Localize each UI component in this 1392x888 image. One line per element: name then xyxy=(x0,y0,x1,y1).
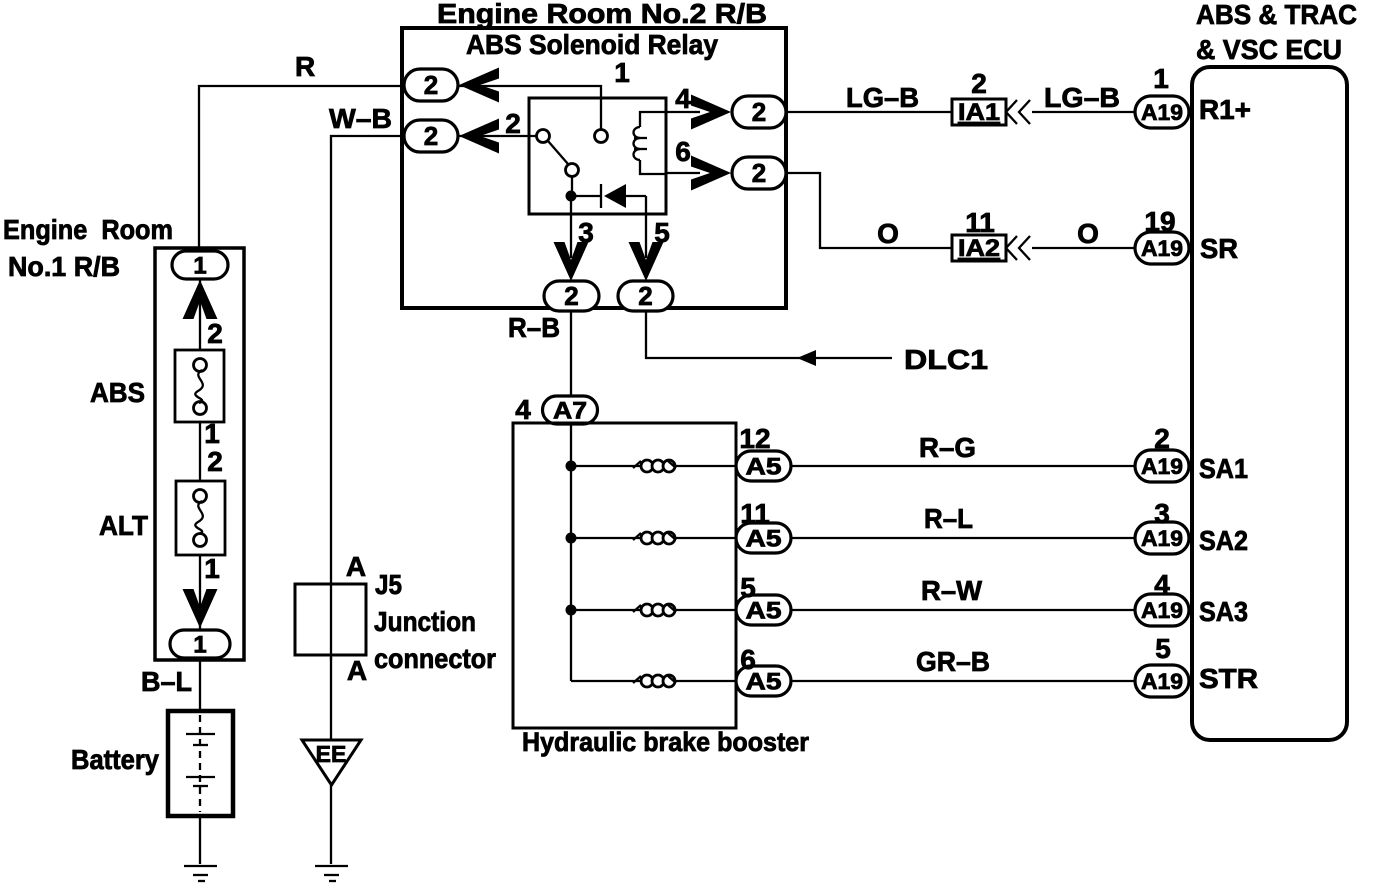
wire battery to ground xyxy=(199,816,201,864)
svg-text:1: 1 xyxy=(204,418,220,449)
wire W-B: relay pin2 to J5 junction connector xyxy=(331,136,404,740)
svg-text:2: 2 xyxy=(505,108,521,139)
svg-text:A19: A19 xyxy=(1141,100,1183,125)
svg-text:A: A xyxy=(346,551,366,582)
double chevron IA2 xyxy=(1006,236,1030,260)
connector A19 row 4 xyxy=(1135,665,1189,697)
svg-text:A19: A19 xyxy=(1141,454,1183,479)
svg-text:6: 6 xyxy=(675,136,691,167)
wire LG-B relay pin4 to IA1 xyxy=(786,111,952,113)
svg-text:A5: A5 xyxy=(746,454,782,481)
wire solenoid row 3 xyxy=(571,609,736,611)
connector oval top (1) xyxy=(172,251,228,279)
solenoid coil row 2 xyxy=(633,533,641,540)
wire O IA2 to A19 xyxy=(1032,247,1136,249)
solenoid coil row 3 xyxy=(633,605,641,612)
arrow toward DLC1 xyxy=(797,350,816,366)
junction connector J5 xyxy=(295,584,366,655)
svg-text:SA3: SA3 xyxy=(1199,596,1248,627)
svg-text:4: 4 xyxy=(1154,569,1170,600)
svg-text:A19: A19 xyxy=(1141,236,1183,261)
junction connector IA1 xyxy=(952,99,1006,125)
svg-text:ABS: ABS xyxy=(90,377,145,408)
connector A7 pin4 xyxy=(543,396,598,424)
svg-text:19: 19 xyxy=(1144,206,1175,237)
ground EE xyxy=(315,865,348,867)
svg-text:2: 2 xyxy=(564,281,578,311)
svg-text:GR–B: GR–B xyxy=(916,646,990,677)
wire O relay pin6 to IA2 xyxy=(786,173,952,248)
wire R-B bus xyxy=(570,311,572,681)
svg-text:2: 2 xyxy=(971,68,987,99)
ground triangle EE xyxy=(302,740,361,785)
svg-text:1: 1 xyxy=(193,253,206,280)
svg-text:2: 2 xyxy=(207,446,223,477)
fuse ABS xyxy=(175,350,224,422)
svg-text:A19: A19 xyxy=(1141,526,1183,551)
svg-text:2: 2 xyxy=(638,281,652,311)
wire solenoid row 4 xyxy=(571,680,736,682)
fuse ALT xyxy=(176,481,225,555)
arrow into relay pin2 xyxy=(459,119,499,154)
battery box xyxy=(168,711,233,816)
wire relay pin3 xyxy=(570,196,572,258)
wire EE to ground xyxy=(330,785,332,864)
connector A19 row 1 xyxy=(1135,450,1189,482)
relay block box Engine Room No.2 R/B xyxy=(402,28,786,308)
svg-text:5: 5 xyxy=(654,217,670,248)
svg-text:3: 3 xyxy=(578,217,594,248)
wire relay pin2 internal xyxy=(458,135,537,137)
svg-text:ABS & TRAC: ABS & TRAC xyxy=(1196,0,1357,30)
relay inner box xyxy=(529,98,666,214)
svg-text:SA1: SA1 xyxy=(1199,453,1248,484)
svg-text:O: O xyxy=(1077,218,1099,249)
connector A19 row 2 xyxy=(1135,522,1189,554)
svg-text:J5: J5 xyxy=(375,569,402,600)
svg-text:5: 5 xyxy=(740,572,756,603)
svg-text:Junction: Junction xyxy=(374,606,476,637)
svg-text:2: 2 xyxy=(424,70,438,100)
svg-text:Hydraulic brake booster: Hydraulic brake booster xyxy=(522,727,809,757)
svg-text:1: 1 xyxy=(1153,63,1169,94)
svg-text:2: 2 xyxy=(752,97,766,127)
arrow into relay pin1 xyxy=(459,68,499,103)
svg-text:1: 1 xyxy=(204,553,220,584)
svg-text:R–W: R–W xyxy=(921,575,983,606)
svg-text:DLC1: DLC1 xyxy=(904,344,988,375)
svg-text:A: A xyxy=(347,655,367,686)
wire J5 to EE xyxy=(330,657,332,660)
Engine Room No.1 R/B box xyxy=(155,248,244,660)
connector A5 row 2 xyxy=(736,523,791,553)
arrow out relay pin6 xyxy=(691,156,731,191)
wire SA2 row xyxy=(791,537,1136,539)
svg-text:6: 6 xyxy=(740,644,756,675)
connector A19 row 3 xyxy=(1135,594,1189,626)
svg-text:R1+: R1+ xyxy=(1199,94,1251,125)
arrow down out of R/B xyxy=(183,589,218,628)
relay switch fixed contact pin1 xyxy=(595,130,608,143)
arrow up into R/B xyxy=(183,280,218,319)
wire STR row xyxy=(791,680,1136,682)
svg-text:2: 2 xyxy=(1154,423,1170,454)
svg-text:IA1: IA1 xyxy=(958,99,1000,126)
relay coil xyxy=(640,112,666,127)
svg-text:2: 2 xyxy=(752,158,766,188)
svg-text:Engine Room No.2 R/B: Engine Room No.2 R/B xyxy=(437,0,767,29)
wire SA3 row xyxy=(791,609,1136,611)
svg-text:4: 4 xyxy=(515,394,531,425)
hydraulic brake booster box xyxy=(513,423,736,728)
wire LG-B IA1 to A19 xyxy=(1032,111,1136,113)
wire solenoid row 1 xyxy=(571,465,736,467)
svg-text:R–G: R–G xyxy=(919,432,976,463)
solenoid coil row 1 xyxy=(633,461,641,468)
connector oval relay pin4 (2) xyxy=(732,96,786,128)
connector A19 pin19 xyxy=(1135,232,1189,264)
svg-text:Engine Room: Engine Room xyxy=(3,214,173,245)
svg-text:ALT: ALT xyxy=(99,510,148,541)
svg-text:3: 3 xyxy=(1154,498,1170,529)
svg-text:2: 2 xyxy=(207,318,223,349)
svg-text:EE: EE xyxy=(316,741,347,767)
wire solenoid row 2 xyxy=(571,537,736,539)
ground battery xyxy=(184,865,217,867)
arrow out relay pin5 xyxy=(629,242,664,281)
svg-text:O: O xyxy=(877,218,899,249)
ECU box xyxy=(1192,67,1347,740)
svg-text:LG–B: LG–B xyxy=(846,82,919,113)
relay switch contact lower xyxy=(566,164,579,177)
wire to DLC1 xyxy=(646,311,892,358)
junction node row 1 xyxy=(566,461,577,472)
svg-text:connector: connector xyxy=(374,643,496,674)
svg-text:A5: A5 xyxy=(746,526,782,553)
junction connector IA2 xyxy=(952,235,1006,261)
svg-text:Battery: Battery xyxy=(71,744,159,775)
junction node relay common xyxy=(566,191,577,202)
svg-text:& VSC ECU: & VSC ECU xyxy=(1196,34,1342,65)
svg-text:LG–B: LG–B xyxy=(1044,82,1120,113)
svg-text:12: 12 xyxy=(739,423,770,454)
svg-text:11: 11 xyxy=(740,498,770,529)
wire relay pin6 xyxy=(666,172,700,174)
svg-text:1: 1 xyxy=(193,632,206,659)
connector oval bottom (1) xyxy=(170,630,230,658)
svg-text:W–B: W–B xyxy=(329,103,392,134)
wire relay pin5 xyxy=(645,196,647,258)
connector A5 row 4 xyxy=(736,666,791,696)
svg-text:ABS Solenoid Relay: ABS Solenoid Relay xyxy=(466,29,718,60)
svg-text:R: R xyxy=(295,51,315,82)
double chevron IA1 xyxy=(1006,100,1030,124)
svg-text:IA2: IA2 xyxy=(958,235,1000,262)
wire relay pin4 xyxy=(666,111,700,113)
svg-text:SA2: SA2 xyxy=(1199,525,1248,556)
svg-text:11: 11 xyxy=(965,207,995,238)
solenoid coil row 4 xyxy=(633,676,641,683)
svg-text:B–L: B–L xyxy=(141,666,192,697)
svg-text:5: 5 xyxy=(1155,633,1171,664)
wire switch to node xyxy=(571,176,573,196)
arrow out relay pin4 xyxy=(691,95,731,130)
svg-text:SR: SR xyxy=(1200,233,1238,264)
svg-text:R–L: R–L xyxy=(924,503,973,534)
relay switch arm xyxy=(548,141,568,164)
svg-text:1: 1 xyxy=(614,57,630,88)
svg-text:No.1 R/B: No.1 R/B xyxy=(8,251,120,282)
connector oval relay pin2 (2) xyxy=(404,120,458,152)
svg-text:A19: A19 xyxy=(1141,598,1183,623)
junction node row 3 xyxy=(566,605,577,616)
wire oval to battery xyxy=(199,658,201,711)
battery cells xyxy=(199,715,201,812)
connector oval relay pin1 (2) xyxy=(404,69,458,101)
connector oval relay pin5 (2) xyxy=(618,281,673,311)
connector A19 pin1 xyxy=(1135,96,1189,128)
connector A5 row 1 xyxy=(736,451,791,481)
svg-text:4: 4 xyxy=(675,83,691,114)
arrow out relay pin3 xyxy=(554,242,589,281)
wire relay pin1 internal xyxy=(458,86,601,130)
diode D1 xyxy=(576,195,601,197)
connector A5 row 3 xyxy=(736,595,791,625)
connector oval relay pin6 (2) xyxy=(732,157,786,189)
svg-text:A19: A19 xyxy=(1141,669,1183,694)
connector oval relay pin3 (2) xyxy=(544,281,599,311)
svg-text:2: 2 xyxy=(424,121,438,151)
junction node row 2 xyxy=(566,533,577,544)
wire fuse chain xyxy=(199,279,201,368)
svg-text:A7: A7 xyxy=(553,398,587,425)
wire SA1 row xyxy=(791,465,1136,467)
wire R: relay pin1 feed to Engine Room No.1 R/B xyxy=(199,86,404,250)
svg-text:STR: STR xyxy=(1199,663,1258,694)
relay switch contact pin2 xyxy=(537,130,550,143)
svg-text:R–B: R–B xyxy=(508,312,560,343)
